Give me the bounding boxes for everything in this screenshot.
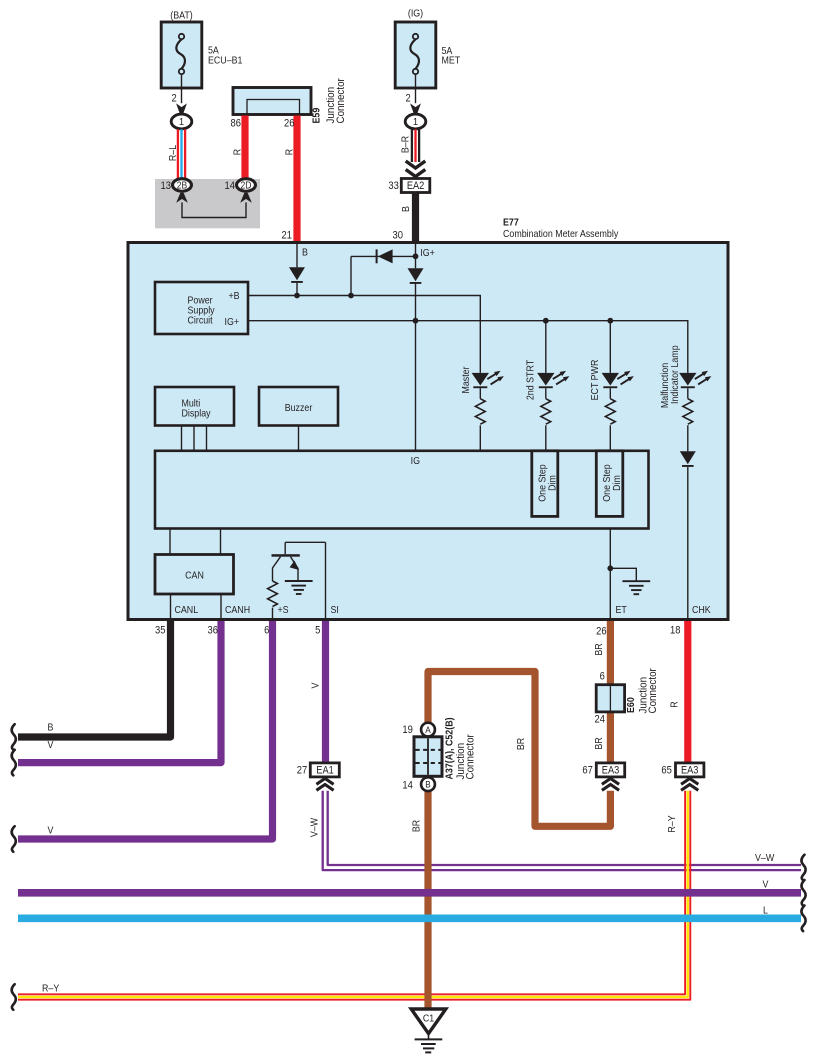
svg-text:33: 33	[388, 181, 399, 193]
svg-text:67: 67	[582, 765, 593, 777]
svg-text:V: V	[763, 879, 769, 891]
svg-text:+B: +B	[229, 290, 240, 302]
svg-text:EA2: EA2	[407, 181, 425, 193]
svg-text:2: 2	[171, 93, 177, 105]
svg-text:IG: IG	[411, 456, 420, 468]
svg-text:Master: Master	[460, 366, 472, 394]
svg-text:14: 14	[225, 180, 236, 192]
svg-text:65: 65	[661, 765, 672, 777]
svg-text:19: 19	[402, 724, 413, 736]
svg-text:Connector: Connector	[334, 78, 347, 124]
svg-text:30: 30	[393, 230, 404, 242]
svg-text:(BAT): (BAT)	[170, 10, 192, 22]
svg-text:BR: BR	[515, 738, 527, 750]
svg-text:R: R	[669, 701, 681, 707]
svg-text:B: B	[400, 206, 412, 212]
svg-text:27: 27	[297, 765, 308, 777]
svg-text:(IG): (IG)	[408, 8, 423, 20]
svg-text:CAN: CAN	[185, 570, 204, 582]
svg-text:14: 14	[402, 780, 413, 792]
svg-text:IG+: IG+	[225, 316, 240, 328]
svg-text:E77: E77	[503, 217, 519, 229]
svg-text:BR: BR	[411, 820, 423, 832]
svg-text:Dim: Dim	[547, 475, 559, 491]
svg-text:R: R	[284, 149, 296, 155]
svg-text:V: V	[310, 682, 322, 688]
svg-text:21: 21	[282, 230, 293, 242]
svg-text:Combination Meter Assembly: Combination Meter Assembly	[503, 228, 618, 240]
svg-text:6: 6	[264, 625, 270, 637]
svg-text:1: 1	[179, 117, 184, 129]
svg-text:6: 6	[600, 671, 606, 683]
svg-text:IG+: IG+	[420, 247, 435, 259]
svg-text:SI: SI	[331, 604, 339, 616]
svg-text:24: 24	[595, 714, 606, 726]
svg-text:CHK: CHK	[692, 604, 711, 616]
svg-text:Buzzer: Buzzer	[285, 402, 313, 414]
svg-text:ECU–B1: ECU–B1	[208, 55, 242, 67]
svg-text:V: V	[48, 825, 54, 837]
svg-text:+S: +S	[278, 604, 289, 616]
svg-text:13: 13	[161, 180, 172, 192]
svg-text:V–W: V–W	[755, 852, 774, 864]
svg-text:36: 36	[208, 625, 219, 637]
svg-text:B: B	[425, 779, 431, 790]
svg-text:26: 26	[596, 626, 607, 638]
svg-text:R: R	[232, 149, 244, 155]
svg-text:Display: Display	[182, 408, 211, 420]
svg-text:18: 18	[670, 625, 681, 637]
svg-text:MET: MET	[442, 55, 461, 67]
svg-text:E60: E60	[625, 697, 637, 713]
svg-text:B: B	[48, 722, 54, 734]
svg-text:R–Y: R–Y	[666, 815, 678, 833]
svg-text:2B: 2B	[177, 180, 187, 191]
svg-text:Indicator Lamp: Indicator Lamp	[669, 345, 681, 404]
svg-text:B–R: B–R	[400, 136, 412, 153]
svg-text:ET: ET	[616, 604, 627, 616]
svg-text:EA1: EA1	[316, 765, 334, 777]
svg-text:EA3: EA3	[681, 765, 699, 777]
svg-text:2: 2	[405, 93, 411, 105]
svg-text:BR: BR	[594, 737, 606, 749]
svg-text:CANL: CANL	[175, 604, 199, 616]
svg-text:1: 1	[413, 117, 418, 129]
svg-text:86: 86	[231, 118, 242, 130]
svg-text:C1: C1	[423, 1013, 434, 1025]
svg-text:R–L: R–L	[168, 145, 180, 161]
svg-text:V: V	[48, 739, 54, 751]
svg-text:B: B	[302, 247, 308, 259]
svg-text:26: 26	[284, 118, 295, 130]
svg-text:BR: BR	[594, 643, 606, 655]
svg-text:2nd STRT: 2nd STRT	[525, 360, 537, 400]
svg-text:L: L	[763, 905, 768, 917]
svg-text:Connector: Connector	[464, 734, 477, 780]
svg-text:E59: E59	[311, 108, 323, 124]
svg-text:35: 35	[155, 625, 166, 637]
svg-text:V–W: V–W	[309, 818, 321, 837]
svg-text:EA3: EA3	[602, 765, 620, 777]
svg-text:R–Y: R–Y	[42, 983, 60, 995]
svg-text:Dim: Dim	[611, 475, 623, 491]
svg-text:5: 5	[315, 625, 321, 637]
svg-text:Connector: Connector	[646, 668, 659, 714]
svg-text:A: A	[425, 724, 431, 735]
svg-text:2D: 2D	[241, 180, 252, 191]
svg-text:Circuit: Circuit	[188, 315, 213, 327]
svg-text:CANH: CANH	[225, 604, 250, 616]
svg-text:ECT PWR: ECT PWR	[589, 360, 601, 401]
